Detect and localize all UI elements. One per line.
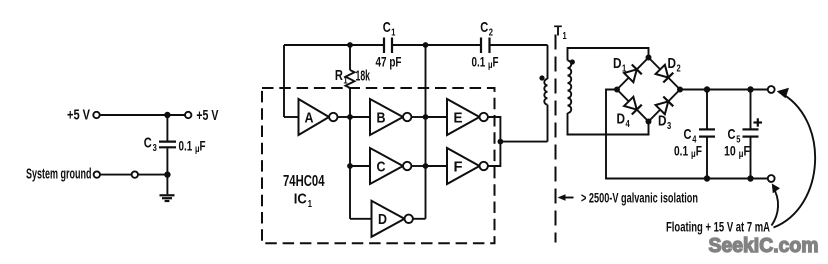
primary polarity dot xyxy=(539,75,544,80)
terminal +5 V output xyxy=(185,112,191,118)
wire primary bottom lead xyxy=(547,105,549,142)
svg-text:C: C xyxy=(377,158,386,175)
svg-text:+5 V: +5 V xyxy=(67,107,90,124)
junction bridge left xyxy=(614,87,620,93)
junction C5 bottom xyxy=(747,175,753,181)
wire ground rail xyxy=(138,174,167,176)
capacitor C3 xyxy=(159,142,176,148)
terminal system ground xyxy=(94,171,100,177)
wire output bus xyxy=(425,45,427,219)
junction bridge bottom xyxy=(646,119,652,125)
capacitor C2 xyxy=(481,38,490,54)
svg-text:D: D xyxy=(613,55,622,72)
wire top rail right xyxy=(490,44,548,46)
junction bridge right xyxy=(677,87,683,93)
callout arc to negative terminal xyxy=(772,184,781,226)
terminal positive output xyxy=(768,86,775,93)
IC1 dashed box xyxy=(262,88,495,243)
inverter F xyxy=(447,148,488,184)
wire BCD input bus xyxy=(349,117,351,219)
wire C5 bottom lead xyxy=(750,138,752,179)
svg-text:A: A xyxy=(305,109,314,126)
inverter A xyxy=(299,99,338,135)
svg-text:3: 3 xyxy=(153,142,157,154)
wire A input xyxy=(284,116,299,118)
junction C4 top xyxy=(704,86,710,92)
svg-text:C: C xyxy=(684,126,692,143)
diode D1 xyxy=(613,55,649,90)
svg-text:B: B xyxy=(377,109,386,126)
svg-text:18k: 18k xyxy=(356,68,371,85)
junction A output / R1 / input bus xyxy=(347,114,353,120)
svg-text:D: D xyxy=(668,55,677,72)
secondary polarity dot xyxy=(570,59,575,64)
wire C5 top lead xyxy=(750,90,752,129)
svg-text:C: C xyxy=(383,19,391,36)
wire ground stub xyxy=(166,175,168,195)
transformer core xyxy=(555,35,557,243)
wire C3 bottom lead xyxy=(166,148,168,174)
wire secondary bottom lead xyxy=(568,113,649,135)
wire R1 top lead xyxy=(349,45,351,70)
svg-text:10 μF: 10 μF xyxy=(724,142,750,160)
wire R1 bottom lead xyxy=(349,88,351,117)
svg-text:D: D xyxy=(617,111,626,128)
wire C input xyxy=(350,165,370,167)
wire negative tap xyxy=(606,90,767,179)
junction C1 / C2 / B output bus xyxy=(423,42,429,48)
svg-text:D: D xyxy=(658,113,667,130)
wire C4 top lead xyxy=(706,90,708,129)
svg-text:SeekIC.com: SeekIC.com xyxy=(709,234,819,257)
svg-text:R: R xyxy=(335,67,343,84)
wire feedback left vertical xyxy=(283,45,285,117)
wire D input xyxy=(350,218,372,220)
junction C output / F input xyxy=(423,163,429,169)
wire B input xyxy=(350,116,370,118)
inverter D xyxy=(372,201,413,237)
wire C4 bottom lead xyxy=(706,138,708,179)
wire top rail mid xyxy=(392,44,481,46)
ground xyxy=(160,195,175,201)
svg-text:1: 1 xyxy=(391,27,395,39)
svg-text:47 pF: 47 pF xyxy=(376,53,402,69)
wire E input xyxy=(426,116,448,118)
junction C5 top xyxy=(747,86,753,92)
svg-text:2: 2 xyxy=(677,63,681,75)
svg-text:1: 1 xyxy=(343,75,347,87)
svg-text:0.1 μF: 0.1 μF xyxy=(674,142,702,160)
svg-text:4: 4 xyxy=(626,118,630,130)
wire A output xyxy=(338,116,351,118)
svg-text:+5 V: +5 V xyxy=(196,107,218,124)
transformer T1 primary winding xyxy=(544,79,547,105)
wire F output xyxy=(488,142,501,166)
wire C3 top lead xyxy=(166,115,168,141)
svg-text:C: C xyxy=(728,126,736,143)
svg-text:Floating + 15 V at 7 mA: Floating + 15 V at 7 mA xyxy=(666,220,770,235)
junction ground / C3 xyxy=(164,171,170,177)
svg-text:C: C xyxy=(144,135,152,152)
transformer T1 secondary winding xyxy=(568,61,572,114)
svg-text:3: 3 xyxy=(667,120,671,132)
capacitor C4 xyxy=(699,129,715,136)
terminal ground mid xyxy=(132,171,138,177)
wire ground link xyxy=(100,174,131,176)
inverter E xyxy=(447,99,488,135)
inverter B xyxy=(370,99,411,135)
wire F input xyxy=(426,165,448,167)
svg-text:0.1 μF: 0.1 μF xyxy=(179,137,206,155)
svg-text:System ground: System ground xyxy=(26,166,92,183)
capacitor C5 xyxy=(743,129,759,136)
junction B output / E input xyxy=(423,114,429,120)
polarity plus C5 xyxy=(754,118,763,126)
wire B output xyxy=(411,116,425,118)
diode D4 xyxy=(617,90,649,131)
diode D2 xyxy=(649,55,681,90)
svg-text:E: E xyxy=(454,109,463,126)
terminal +5 V input xyxy=(93,112,99,118)
wire E output xyxy=(488,117,501,142)
capacitor C1 xyxy=(384,38,392,54)
wire positive rail xyxy=(680,89,768,91)
junction bridge top xyxy=(646,55,652,61)
resistor R1 xyxy=(346,70,355,88)
svg-text:D: D xyxy=(378,211,387,228)
inverter C xyxy=(370,148,411,184)
junction +5V / C3 xyxy=(164,112,170,118)
wire primary return xyxy=(500,141,547,143)
svg-text:> 2500-V galvanic isolation: > 2500-V galvanic isolation xyxy=(581,190,698,205)
svg-text:IC: IC xyxy=(294,191,307,208)
junction C input xyxy=(347,163,353,169)
wire D output xyxy=(413,218,426,220)
svg-text:F: F xyxy=(454,158,463,175)
diode D3 xyxy=(649,90,681,133)
isolation callout arrow xyxy=(558,194,574,201)
svg-text:C: C xyxy=(480,19,488,36)
svg-text:74HC04: 74HC04 xyxy=(283,173,325,190)
svg-text:0.1 μF: 0.1 μF xyxy=(472,53,499,71)
svg-text:1: 1 xyxy=(622,63,626,75)
svg-text:2: 2 xyxy=(489,27,493,39)
junction R1 top xyxy=(347,42,353,48)
svg-text:1: 1 xyxy=(563,30,567,42)
wire +5V rail xyxy=(100,114,185,116)
terminal negative output xyxy=(768,175,775,182)
wire primary top lead xyxy=(547,45,549,79)
svg-text:1: 1 xyxy=(308,198,312,210)
wire C output xyxy=(411,165,425,167)
callout arc to positive terminal xyxy=(774,88,816,228)
wire secondary top rail xyxy=(568,48,649,61)
wire top rail left xyxy=(284,44,384,46)
junction C4 bottom xyxy=(704,175,710,181)
junction EF output / primary return xyxy=(498,139,504,145)
